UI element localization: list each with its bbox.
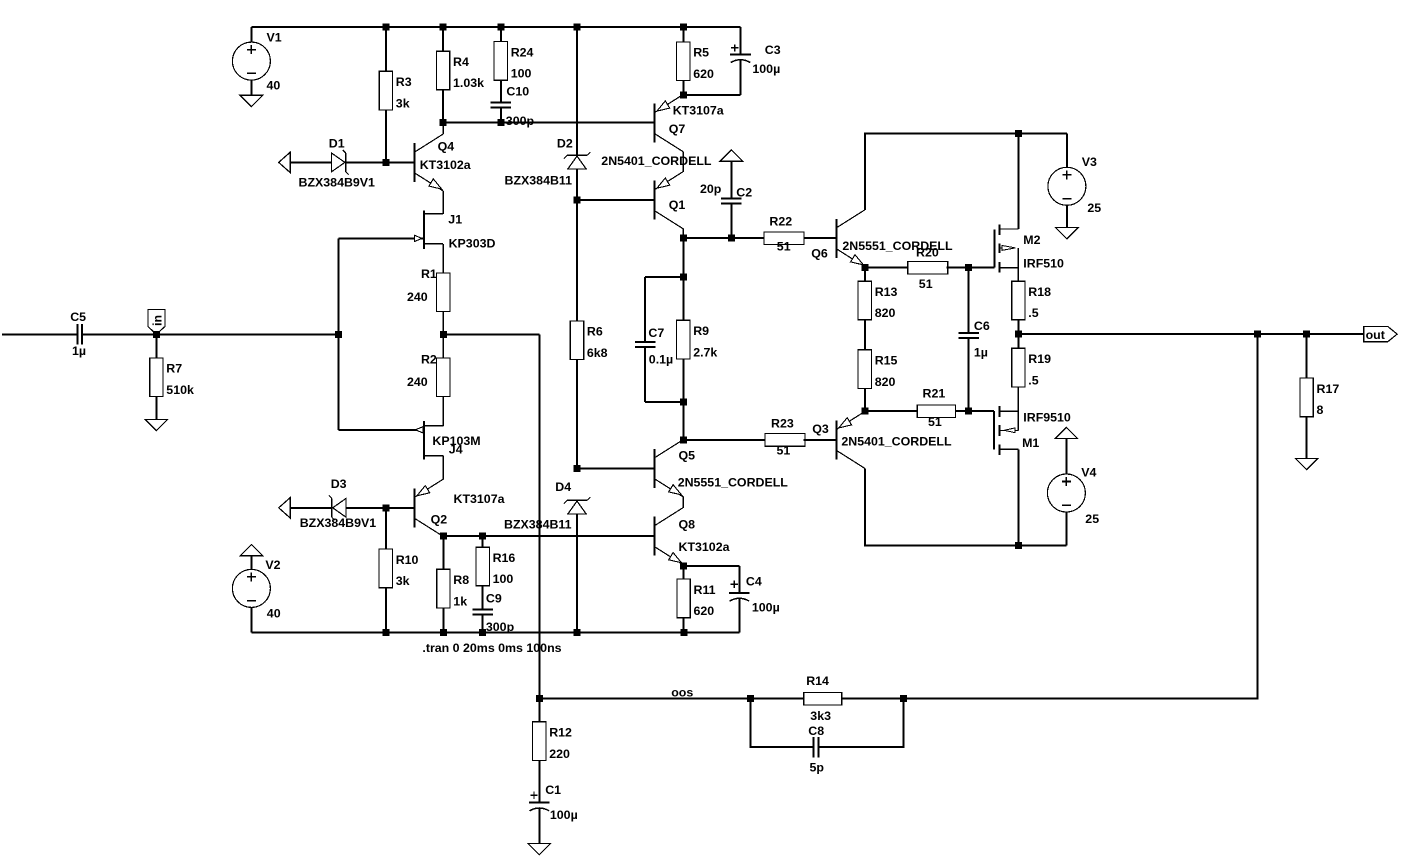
junction Q2 collector / R8 bbox=[440, 533, 447, 540]
svg-text:40: 40 bbox=[267, 79, 281, 93]
wire: rail to D2 bbox=[576, 27, 578, 155]
junction D3 / R10 / Q2 base bbox=[382, 504, 389, 511]
ground (V3) bbox=[1056, 228, 1079, 239]
junction R4 / base wire bbox=[440, 119, 447, 126]
svg-text:2N5401_CORDELL: 2N5401_CORDELL bbox=[841, 435, 952, 449]
junction C7 top bbox=[680, 274, 687, 281]
wire: D1 to Q4 base bbox=[346, 161, 415, 163]
ground (C1) bbox=[528, 843, 551, 854]
wire: R21 row right bbox=[956, 410, 969, 412]
svg-text:IRF9510: IRF9510 bbox=[1023, 410, 1071, 424]
wire: D2 to Q1 base junction bbox=[576, 169, 578, 200]
wire: R22 to Q6 base bbox=[804, 237, 837, 239]
svg-text:240: 240 bbox=[407, 290, 428, 304]
wire: Q7 emitter stub bbox=[682, 94, 684, 96]
svg-text:2N5551_CORDELL: 2N5551_CORDELL bbox=[678, 476, 789, 490]
junction top rail / D2 bbox=[574, 24, 581, 31]
svg-text:M1: M1 bbox=[1022, 436, 1039, 450]
svg-text:R20: R20 bbox=[916, 246, 939, 260]
capacitor C4 bbox=[684, 566, 750, 632]
zener diode D1 bbox=[332, 150, 349, 175]
svg-text:3k: 3k bbox=[396, 574, 410, 588]
svg-text:820: 820 bbox=[875, 375, 896, 389]
junction R16 top bbox=[479, 533, 486, 540]
capacitor C1 bbox=[529, 792, 550, 844]
wire: Q2 collector stub bbox=[442, 535, 444, 537]
svg-text:8: 8 bbox=[1317, 403, 1324, 417]
junction bottom rail / R8 bbox=[440, 629, 447, 636]
svg-text:KT3102a: KT3102a bbox=[420, 158, 471, 172]
resistor R24 bbox=[494, 27, 533, 102]
wire: Q5 emitter to Q8 collector bbox=[682, 497, 684, 508]
svg-text:2N5401_CORDELL: 2N5401_CORDELL bbox=[601, 154, 712, 168]
svg-text:C5: C5 bbox=[70, 310, 86, 324]
resistor R7 bbox=[150, 334, 194, 419]
wire: R23 row left bbox=[683, 439, 765, 441]
junction R18 / R19 / output bbox=[1015, 331, 1022, 338]
wire: Q1 collector bbox=[682, 229, 684, 239]
svg-text:R1: R1 bbox=[421, 267, 437, 281]
wire: J1 source to R1 bbox=[442, 244, 444, 273]
svg-text:C3: C3 bbox=[765, 43, 781, 57]
svg-text:R11: R11 bbox=[694, 583, 716, 597]
svg-text:KT3107a: KT3107a bbox=[454, 492, 505, 506]
svg-text:V2: V2 bbox=[265, 558, 280, 572]
voltage source V4 bbox=[1047, 439, 1085, 546]
mosfet M2 bbox=[994, 224, 1018, 272]
jfet J4 bbox=[415, 421, 443, 460]
svg-text:Q3: Q3 bbox=[812, 422, 829, 436]
wire: output to feedback network bbox=[904, 334, 1258, 699]
svg-text:BZX384B11: BZX384B11 bbox=[505, 173, 573, 187]
junction R14 left / C8 bbox=[747, 695, 754, 702]
wire: midpoint to R2 bbox=[442, 334, 444, 358]
wire: +40V top rail bbox=[251, 26, 740, 28]
flipped ground (V2) bbox=[240, 545, 263, 556]
net flag out bbox=[1364, 327, 1397, 342]
svg-text:51: 51 bbox=[928, 415, 942, 429]
wire: R14 row right bbox=[842, 698, 904, 700]
svg-text:Q5: Q5 bbox=[679, 448, 696, 462]
capacitor C7 bbox=[635, 277, 684, 402]
svg-text:C6: C6 bbox=[974, 319, 990, 333]
svg-text:620: 620 bbox=[693, 67, 714, 81]
capacitor C6 bbox=[958, 268, 979, 412]
svg-text:V1: V1 bbox=[267, 31, 282, 45]
wire: Q3 emitter stub bbox=[864, 410, 866, 412]
svg-text:100µ: 100µ bbox=[550, 808, 578, 822]
resistor R22 bbox=[764, 214, 804, 253]
svg-text:R7: R7 bbox=[166, 362, 182, 376]
capacitor C2 bbox=[721, 199, 742, 239]
transistor Q8 bbox=[655, 508, 684, 565]
wire: ground flag to D1 bbox=[290, 161, 331, 163]
wire: Q3 collector down to output-stage rail bbox=[865, 468, 1067, 545]
junction D4 column / Q5 base bbox=[574, 465, 581, 472]
transistor Q1 bbox=[655, 172, 684, 229]
resistor R16 bbox=[476, 536, 515, 609]
svg-text:Q7: Q7 bbox=[669, 122, 686, 136]
svg-text:out: out bbox=[1366, 328, 1385, 342]
svg-text:R15: R15 bbox=[875, 354, 898, 368]
capacitor C8 loop bbox=[751, 699, 904, 758]
svg-text:R4: R4 bbox=[453, 55, 469, 69]
svg-text:1k: 1k bbox=[453, 594, 467, 608]
resistor R1 bbox=[407, 267, 450, 311]
junction D2 / Q1 base bbox=[574, 197, 581, 204]
svg-text:KP303D: KP303D bbox=[449, 237, 496, 251]
svg-text:25: 25 bbox=[1085, 512, 1099, 526]
wire: to Q5 base bbox=[577, 467, 655, 469]
zener diode D3 bbox=[329, 495, 346, 520]
wire: VAS column lower bbox=[682, 359, 684, 440]
junction in flag / R7 bbox=[153, 331, 160, 338]
wire: M2 source to R18 bbox=[1017, 248, 1019, 281]
svg-text:Q8: Q8 bbox=[679, 518, 696, 532]
transistor Q6 bbox=[836, 210, 865, 267]
svg-text:Q2: Q2 bbox=[431, 512, 448, 526]
svg-text:100: 100 bbox=[511, 67, 532, 81]
svg-text:R12: R12 bbox=[549, 726, 572, 740]
ground flag (D1 anchor) bbox=[279, 152, 291, 172]
wire: VAS column upper bbox=[682, 238, 684, 320]
svg-text:R22: R22 bbox=[769, 214, 792, 228]
svg-text:in: in bbox=[150, 315, 164, 326]
svg-text:BZX384B9V1: BZX384B9V1 bbox=[299, 175, 376, 189]
svg-text:3k: 3k bbox=[396, 96, 410, 110]
junction top rail / R24 bbox=[497, 24, 504, 31]
svg-text:620: 620 bbox=[694, 604, 715, 618]
svg-text:220: 220 bbox=[549, 747, 570, 761]
transistor Q3 bbox=[836, 411, 865, 468]
resistor R14 bbox=[804, 674, 842, 723]
svg-text:Q1: Q1 bbox=[669, 198, 686, 212]
wire: Q6 collector up and top wire to V3 bbox=[865, 134, 1067, 211]
resistor R18 bbox=[1012, 281, 1051, 334]
svg-text:3k3: 3k3 bbox=[810, 709, 831, 723]
wire: output line bbox=[1018, 333, 1363, 335]
junction bottom rail / C9 bbox=[479, 629, 486, 636]
svg-text:100µ: 100µ bbox=[752, 62, 780, 76]
capacitor C10 bbox=[491, 85, 535, 129]
svg-text:R21: R21 bbox=[923, 387, 946, 401]
resistor R11 bbox=[677, 566, 716, 632]
svg-text:R24: R24 bbox=[511, 45, 534, 59]
junction C10 / base wire bbox=[497, 119, 504, 126]
svg-text:240: 240 bbox=[407, 375, 428, 389]
junction R5 / Q7 emitter / C3 bbox=[680, 91, 687, 98]
svg-text:.5: .5 bbox=[1028, 373, 1038, 387]
wire: feedback column vertical bbox=[538, 334, 540, 698]
svg-text:D4: D4 bbox=[555, 480, 571, 494]
svg-text:100µ: 100µ bbox=[752, 601, 780, 615]
svg-text:R18: R18 bbox=[1028, 285, 1051, 299]
svg-text:C2: C2 bbox=[736, 185, 752, 199]
wire: VAS node to R22 to Q6 base bbox=[683, 237, 764, 239]
wire: J1 gate bbox=[338, 237, 423, 239]
junction top wire / M2 drain bbox=[1015, 130, 1022, 137]
svg-text:1µ: 1µ bbox=[974, 346, 988, 360]
svg-text:KT3107a: KT3107a bbox=[673, 103, 724, 117]
wire: M1 drain bbox=[1017, 449, 1019, 545]
net flag in bbox=[148, 310, 165, 335]
resistor R23 bbox=[765, 417, 805, 458]
junction M1 drain / rail bbox=[1015, 542, 1022, 549]
svg-text:M2: M2 bbox=[1023, 233, 1040, 247]
svg-text:R8: R8 bbox=[453, 573, 469, 587]
jfet J1 bbox=[415, 210, 444, 249]
wire: R23 to Q3 base bbox=[803, 439, 836, 441]
svg-text:510k: 510k bbox=[166, 383, 194, 397]
wire: M1 source link bbox=[1017, 411, 1019, 430]
junction bottom rail / R10 bbox=[382, 629, 389, 636]
wire: Q1 base junction to R6 bbox=[576, 200, 578, 321]
wire: Q2 collector row to Q8 base bbox=[443, 535, 654, 537]
capacitor C5 bbox=[77, 324, 79, 345]
transistor Q2 bbox=[415, 479, 444, 536]
svg-text:40: 40 bbox=[267, 607, 281, 621]
svg-text:V4: V4 bbox=[1081, 466, 1096, 480]
svg-text:C7: C7 bbox=[648, 326, 664, 340]
resistor R15 bbox=[858, 350, 897, 411]
svg-text:R2: R2 bbox=[421, 352, 437, 366]
voltage source V1 bbox=[232, 27, 270, 95]
wire: R6 to Q5 base junction bbox=[576, 360, 578, 469]
transistor Q4 bbox=[415, 134, 444, 191]
capacitor C9 bbox=[472, 609, 493, 632]
wire: R14 row left bbox=[751, 698, 804, 700]
svg-text:51: 51 bbox=[919, 277, 933, 291]
junction D1 / R3 / Q4 base bbox=[382, 159, 389, 166]
resistor R2 bbox=[407, 352, 450, 396]
junction bottom rail / R11 bbox=[680, 629, 687, 636]
zener diode D2 bbox=[564, 152, 590, 169]
svg-text:R17: R17 bbox=[1317, 382, 1340, 396]
svg-text:R5: R5 bbox=[693, 46, 709, 60]
wire: Q4 collector bbox=[442, 123, 444, 134]
junction output / R17 bbox=[1303, 331, 1310, 338]
wire: oos row left bbox=[539, 698, 750, 700]
junction feedback column / oos bbox=[536, 695, 543, 702]
mosfet M1 bbox=[994, 406, 1018, 455]
svg-text:BZX384B11: BZX384B11 bbox=[504, 518, 572, 532]
svg-text:D3: D3 bbox=[331, 477, 347, 491]
ground flag (D3 anchor) bbox=[279, 498, 291, 518]
resistor R17 bbox=[1300, 334, 1339, 458]
junction C7 bottom bbox=[680, 398, 687, 405]
resistor R10 bbox=[379, 508, 418, 633]
wire: gate bracket vertical bbox=[337, 238, 339, 429]
resistor R19 bbox=[1012, 334, 1051, 411]
svg-text:Q4: Q4 bbox=[438, 140, 455, 154]
resistor R6 bbox=[570, 321, 607, 360]
resistor R12 bbox=[533, 699, 572, 803]
svg-text:C4: C4 bbox=[746, 574, 762, 588]
wire: J4 gate bbox=[338, 429, 423, 431]
wire: R20 row left bbox=[865, 267, 908, 269]
wire: to M1 gate bbox=[969, 410, 994, 412]
resistor R13 bbox=[858, 268, 897, 350]
svg-text:R13: R13 bbox=[875, 285, 898, 299]
junction C2 / VAS node bbox=[728, 235, 735, 242]
svg-text:Q6: Q6 bbox=[811, 246, 828, 260]
resistor R3 bbox=[379, 27, 412, 162]
wire: R2 to J4 source bbox=[442, 397, 444, 426]
svg-text:R19: R19 bbox=[1028, 352, 1051, 366]
junction R20 / C6 / M2 gate bbox=[965, 264, 972, 271]
svg-text:KT3102a: KT3102a bbox=[679, 540, 730, 554]
wire: Q4 collector row to Q7 base bbox=[443, 122, 654, 124]
svg-text:51: 51 bbox=[777, 443, 791, 457]
capacitor C3 bbox=[683, 27, 751, 95]
wire: D4 to bottom rail bbox=[576, 514, 578, 632]
wire: Q8 emitter stub bbox=[682, 565, 684, 566]
svg-text:C1: C1 bbox=[545, 783, 561, 797]
ground (V1) bbox=[240, 95, 263, 106]
svg-text:R10: R10 bbox=[396, 553, 419, 567]
resistor R20 bbox=[908, 246, 948, 291]
wire: M2 drain bbox=[1017, 134, 1019, 230]
flipped ground (C2) bbox=[720, 150, 743, 199]
svg-text:D1: D1 bbox=[329, 137, 345, 151]
wire: midpoint to feedback column bbox=[443, 333, 539, 335]
svg-text:J1: J1 bbox=[448, 213, 462, 227]
junction Q8 emitter / R11 / C4 bbox=[680, 563, 687, 570]
ground (R17) bbox=[1295, 458, 1318, 469]
junction Q6 emitter / R13 / R20 bbox=[861, 264, 868, 271]
svg-text:100: 100 bbox=[493, 572, 514, 586]
svg-text:IRF510: IRF510 bbox=[1023, 257, 1064, 271]
svg-text:C10: C10 bbox=[506, 85, 529, 99]
wire: R1 to midpoint bbox=[442, 312, 444, 335]
svg-text:20p: 20p bbox=[700, 182, 722, 196]
junction R14 right / C8 bbox=[900, 695, 907, 702]
junction bottom rail / D4 bbox=[574, 629, 581, 636]
junction top rail / R4 bbox=[440, 24, 447, 31]
junction input / gate bracket bbox=[335, 331, 342, 338]
wire: to M2 gate bbox=[969, 267, 995, 269]
svg-text:R3: R3 bbox=[396, 75, 412, 89]
wire: J4 drain to Q2 emitter bbox=[442, 456, 444, 480]
junction top rail / R5 bbox=[680, 24, 687, 31]
zener diode D4 bbox=[564, 497, 590, 514]
wire: C5 to gate bracket bbox=[82, 333, 339, 335]
transistor Q7 bbox=[655, 95, 684, 152]
junction Q1 collector node bbox=[680, 235, 687, 242]
svg-text:300p: 300p bbox=[506, 114, 535, 128]
svg-text:C8: C8 bbox=[808, 724, 824, 738]
wire: to Q1 base bbox=[577, 199, 655, 201]
junction top rail / R3 bbox=[382, 24, 389, 31]
svg-text:820: 820 bbox=[875, 306, 896, 320]
ground (R7) bbox=[145, 419, 168, 430]
svg-text:R23: R23 bbox=[771, 417, 794, 431]
svg-text:R6: R6 bbox=[587, 325, 603, 339]
svg-text:V3: V3 bbox=[1082, 155, 1097, 169]
wire: Q7 collector to Q1 emitter bbox=[682, 152, 684, 172]
svg-text:51: 51 bbox=[777, 240, 791, 254]
svg-text:C9: C9 bbox=[486, 592, 502, 606]
wire: D3 to Q2 base bbox=[346, 507, 415, 509]
svg-text:6k8: 6k8 bbox=[587, 346, 608, 360]
svg-text:1µ: 1µ bbox=[72, 344, 86, 358]
junction Q3 emitter / R15 / R21 bbox=[861, 408, 868, 415]
wire: R20 row right bbox=[946, 267, 968, 269]
svg-text:5p: 5p bbox=[810, 760, 825, 774]
junction R9 column / R23 / Q5 collector bbox=[680, 436, 687, 443]
junction R1/R2 midpoint bbox=[440, 331, 447, 338]
svg-text:oos: oos bbox=[671, 686, 693, 700]
svg-text:D2: D2 bbox=[557, 136, 573, 150]
wire: input line bbox=[2, 333, 78, 335]
svg-text:J4: J4 bbox=[449, 443, 463, 457]
svg-text:25: 25 bbox=[1087, 201, 1101, 215]
svg-text:R14: R14 bbox=[806, 674, 829, 688]
resistor R5 bbox=[677, 27, 714, 95]
resistor R4 bbox=[436, 27, 484, 123]
svg-text:.5: .5 bbox=[1028, 306, 1038, 320]
resistor R8 bbox=[437, 536, 470, 632]
wire: R21 row left bbox=[865, 410, 918, 412]
voltage source V2 bbox=[232, 556, 270, 633]
resistor R21 bbox=[917, 387, 955, 429]
junction output / feedback bbox=[1254, 331, 1261, 338]
svg-text:1.03k: 1.03k bbox=[453, 76, 484, 90]
wire: Q4 emitter to J1 drain bbox=[442, 191, 444, 214]
svg-text:R16: R16 bbox=[493, 551, 516, 565]
wire: ground flag to D3 bbox=[290, 507, 332, 509]
svg-text:0.1µ: 0.1µ bbox=[649, 353, 673, 367]
junction R21 / C6 / M1 gate bbox=[965, 408, 972, 415]
svg-text:.tran 0 20ms 0ms 100ns: .tran 0 20ms 0ms 100ns bbox=[422, 641, 561, 655]
svg-text:BZX384B9V1: BZX384B9V1 bbox=[300, 516, 377, 530]
wire: Q6 emitter stub bbox=[864, 266, 866, 269]
svg-text:2.7k: 2.7k bbox=[693, 345, 717, 359]
flipped ground (V4) bbox=[1055, 427, 1078, 438]
wire: -40V bottom rail bbox=[251, 631, 739, 633]
resistor R9 bbox=[677, 320, 718, 359]
voltage source V3 bbox=[1048, 134, 1086, 228]
transistor Q5 bbox=[655, 440, 684, 497]
svg-text:R9: R9 bbox=[693, 324, 709, 338]
